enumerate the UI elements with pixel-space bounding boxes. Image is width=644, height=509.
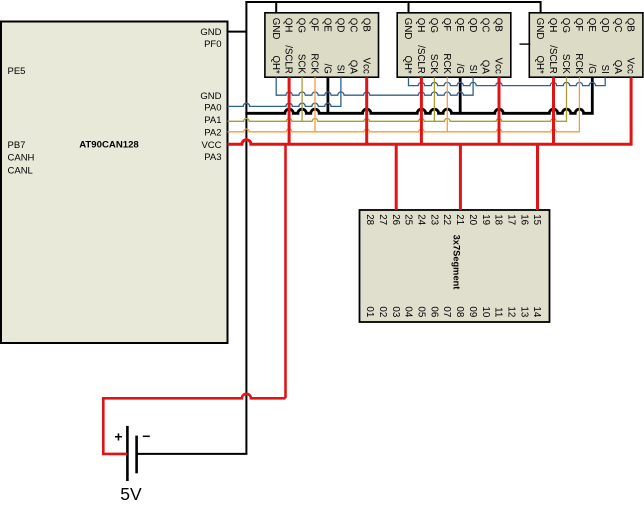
svg-text:12: 12 [506,306,517,317]
svg-text:PA2: PA2 [204,127,221,138]
wire PA0 serial data to U2 SI [228,77,341,106]
svg-text:SCK: SCK [296,54,307,74]
svg-text:04: 04 [403,306,414,317]
wire RCK to U3 pin 12 [446,77,448,132]
svg-text:SI: SI [467,65,478,74]
svg-text:5V: 5V [120,484,142,504]
shift register U3 74HC595 [397,13,511,77]
svg-text:25: 25 [403,214,414,225]
svg-text:QC: QC [480,18,491,33]
wire U2 QH* cascade to U3 SI [276,77,473,95]
svg-text:22: 22 [441,214,452,225]
wire GND MCU pin stub [228,31,247,33]
svg-text:28: 28 [364,214,375,225]
svg-text:QH*: QH* [270,55,281,74]
wire PA1 shift clock bus [228,77,567,121]
svg-text:Vcc: Vcc [625,58,636,74]
wire VCC down to battery [284,144,287,398]
svg-text:26: 26 [390,214,401,225]
svg-text:QH: QH [547,18,558,33]
svg-text:RCK: RCK [309,53,320,74]
svg-text:27: 27 [377,214,388,225]
svg-text:03: 03 [390,306,401,317]
wire PA2 latch clock bus [228,77,580,132]
svg-text:02: 02 [377,306,388,317]
svg-text:GND: GND [270,18,281,40]
wire SCK to U2 pin 11 [301,77,303,121]
wire GND to U4 pin 8 [540,1,542,13]
svg-text:/SCLR: /SCLR [547,45,558,74]
svg-text:01: 01 [364,306,375,317]
shift register U2 74HC595 [265,13,379,77]
svg-text:PF0: PF0 [204,39,221,50]
svg-text:19: 19 [480,214,491,225]
svg-text:QA: QA [612,60,623,75]
svg-text:07: 07 [441,306,452,317]
svg-text:23: 23 [428,214,439,225]
svg-text:CANL: CANL [8,166,33,177]
svg-text:QE: QE [586,18,597,33]
svg-text:/G: /G [322,64,333,74]
wire /G enable bus [245,77,592,113]
svg-text:/SCLR: /SCLR [283,45,294,74]
svg-text:18: 18 [493,214,504,225]
svg-text:13: 13 [518,306,529,317]
svg-text:QB: QB [360,18,371,32]
svg-text:Vcc: Vcc [493,58,504,74]
svg-text:10: 10 [480,306,491,317]
svg-text:/G: /G [586,64,597,74]
svg-text:09: 09 [467,306,478,317]
svg-text:+: + [114,428,122,444]
wire VCC to U4 /SCLR [552,77,555,144]
svg-text:SCK: SCK [428,54,439,74]
wire GND to U2 pin 8 [275,2,277,13]
svg-text:QA: QA [480,60,491,75]
svg-text:PE5: PE5 [8,66,26,77]
shift register U4 74HC595 [529,13,643,77]
svg-text:QE: QE [322,18,333,33]
svg-text:PB7: PB7 [8,140,26,151]
svg-text:GND: GND [200,91,221,102]
wire GND to U3 pin 8 [408,2,410,13]
svg-text:PA3: PA3 [204,152,221,163]
wire U3 QH* cascade to U4 SI [409,77,606,85]
wire VCC to U2 /SCLR [288,77,291,144]
svg-text:QB: QB [493,18,504,32]
svg-text:05: 05 [416,306,427,317]
svg-text:24: 24 [416,214,427,225]
svg-text:08: 08 [454,306,465,317]
wire /G to U3 pin 13 [459,77,462,113]
battery BT1 5V [114,426,150,504]
svg-text:GND: GND [200,27,221,38]
svg-text:17: 17 [506,214,517,225]
svg-text:PA0: PA0 [204,103,221,114]
svg-text:QF: QF [573,18,584,32]
svg-text:Vcc: Vcc [360,58,371,74]
svg-text:VCC: VCC [201,140,221,151]
svg-text:QH*: QH* [534,55,545,74]
svg-text:GND: GND [534,18,545,40]
svg-text:GND: GND [402,18,413,40]
svg-text:20: 20 [467,214,478,225]
display DS1 3x7Segment [360,210,550,322]
svg-text:SCK: SCK [560,54,571,74]
svg-text:06: 06 [428,306,439,317]
svg-text:QE: QE [454,18,465,33]
IC U1 AT90CAN128 [1,22,228,344]
svg-text:AT90CAN128: AT90CAN128 [79,140,139,151]
svg-text:QG: QG [428,18,439,33]
svg-text:QC: QC [612,18,623,33]
wire RCK to U2 pin 12 [314,77,316,132]
svg-text:QF: QF [441,18,452,32]
wire GND battery return [137,453,248,455]
svg-text:QH: QH [415,18,426,33]
svg-text:15: 15 [531,214,542,225]
wire VCC to U2 Vcc [365,77,368,144]
wire VCC bus [228,77,632,144]
svg-text:QF: QF [309,18,320,32]
wire GND main vertical [245,1,247,454]
svg-text:11: 11 [493,307,504,317]
svg-text:QG: QG [296,18,307,33]
wire VCC to display pin 15 [536,144,539,210]
wire stub at U4 left edge [520,43,531,45]
wire battery positive [103,394,285,454]
svg-text:SI: SI [335,65,346,74]
wire VCC to display pin 21 [459,144,462,210]
svg-text:RCK: RCK [441,53,452,74]
svg-text:16: 16 [518,214,529,225]
svg-text:/SCLR: /SCLR [415,45,426,74]
svg-text:SI: SI [599,65,610,74]
svg-text:−: − [142,428,150,444]
svg-text:QB: QB [625,18,636,32]
svg-text:QD: QD [467,18,478,33]
svg-text:21: 21 [454,214,465,225]
svg-text:RCK: RCK [573,53,584,74]
svg-text:QC: QC [347,18,358,33]
wire SCK to U3 pin 11 [433,77,435,121]
svg-text:QG: QG [560,18,571,33]
wire GND top rail [245,1,540,3]
svg-text:QH*: QH* [402,55,413,74]
svg-text:PA1: PA1 [204,115,221,126]
svg-text:QD: QD [335,18,346,33]
svg-text:14: 14 [531,306,542,317]
svg-text:QD: QD [599,18,610,33]
svg-text:QH: QH [283,18,294,33]
svg-text:/G: /G [454,64,465,74]
svg-text:CANH: CANH [8,153,35,164]
wire VCC to U3 /SCLR [420,77,423,144]
svg-text:QA: QA [347,60,358,75]
wire /G to U2 pin 13 [326,77,329,113]
wire VCC to display pin 26 [395,144,398,210]
svg-text:3x7Segment: 3x7Segment [452,235,462,290]
wire VCC to U3 Vcc [498,77,501,144]
